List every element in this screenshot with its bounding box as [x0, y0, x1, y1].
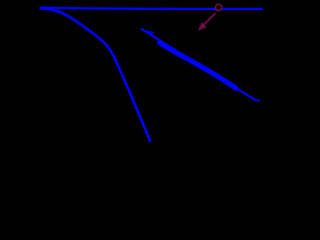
node blue dot at end	[257, 99, 259, 101]
node maroon ring	[215, 4, 221, 10]
wire maroon arrow shaft	[203, 13, 215, 25]
wire horizontal blue asymptote line	[41, 8, 262, 9]
wire short blue dash near tip	[147, 31, 154, 34]
node maroon arrowhead	[198, 22, 207, 31]
wire thin diagonal blue line	[142, 29, 256, 100]
node descending blue curve	[41, 8, 151, 141]
wire thick blue tapered stroke	[160, 43, 237, 89]
